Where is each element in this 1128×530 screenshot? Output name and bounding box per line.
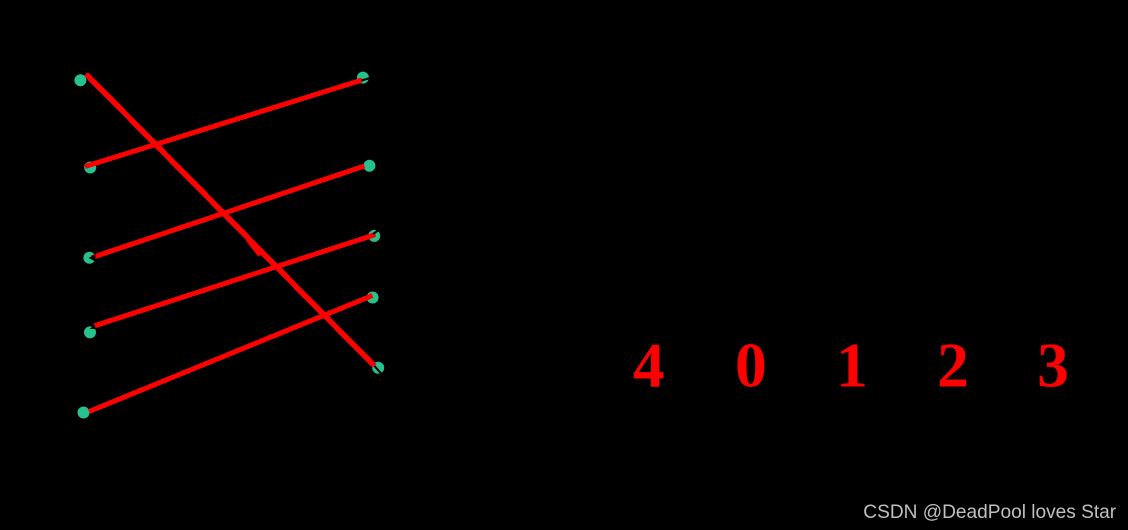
svg-text:0: 0 <box>735 330 767 401</box>
svg-text:3: 3 <box>1037 330 1069 401</box>
svg-text:1: 1 <box>836 330 868 401</box>
svg-text:CSDN @DeadPool loves Star: CSDN @DeadPool loves Star <box>863 502 1116 523</box>
svg-text:2: 2 <box>937 330 969 401</box>
svg-text:4: 4 <box>633 330 665 401</box>
